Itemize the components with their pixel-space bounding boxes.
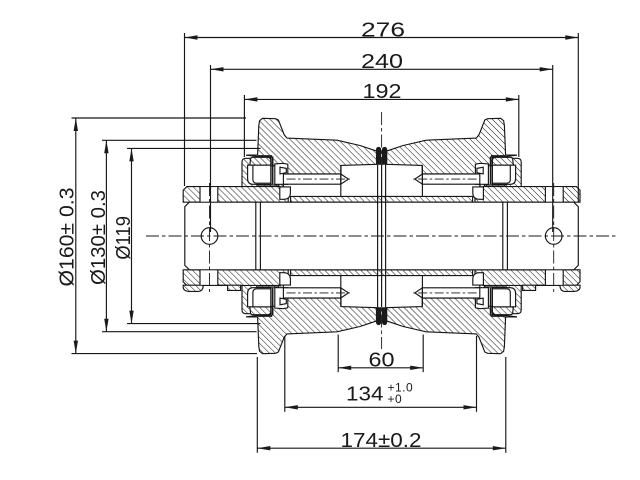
seal ring inner line: [492, 165, 510, 183]
seal ring inner line: [253, 165, 271, 183]
center rubber ring: [376, 307, 381, 325]
wedge: [280, 298, 286, 305]
floating seal block: [275, 163, 288, 184]
shaft collar steps: [255, 202, 257, 270]
roller rim section: [246, 276, 377, 354]
floating seal block: [475, 288, 488, 309]
bracket mounting foot: [183, 285, 240, 291]
svg-text:Ø160± 0.3: Ø160± 0.3: [57, 188, 79, 287]
dimension 60: [338, 335, 423, 373]
oil passage: [422, 174, 479, 184]
vertical center line: [381, 112, 383, 349]
bracket bolt hole: [200, 187, 218, 202]
gamma seal holder: [258, 288, 273, 316]
dimension 276: [185, 19, 579, 202]
seal retainer channel: [473, 187, 484, 199]
seal ring inner line: [253, 289, 271, 307]
seal retainer channel: [280, 273, 291, 285]
svg-text:276: 276: [361, 19, 405, 41]
bracket mounting foot: [523, 285, 580, 291]
bracket bolt hole: [545, 187, 563, 202]
seal ring: [492, 165, 515, 184]
seal ring: [248, 165, 271, 184]
shaft pin hole right: [545, 228, 562, 245]
shaft: [185, 202, 579, 270]
dimension 192: [244, 81, 518, 157]
right pin hole center line: [553, 183, 555, 292]
seal housing cap: [492, 307, 513, 315]
bushing upper: [291, 196, 473, 202]
bracket bolt hole: [200, 270, 218, 285]
seal ring: [492, 288, 515, 307]
roller rim section: [386, 118, 517, 196]
bearing bracket collar: [475, 187, 580, 203]
gamma seal holder: [258, 156, 273, 184]
seal housing cap: [250, 307, 271, 315]
svg-text:192: 192: [363, 81, 402, 103]
bushing lower: [291, 270, 473, 276]
gamma seal holder: [491, 156, 506, 184]
seal retainer channel: [473, 273, 484, 285]
seal boss: [242, 158, 279, 202]
oil passage: [283, 174, 340, 184]
svg-text:Ø119: Ø119: [113, 216, 135, 260]
svg-text:240: 240: [361, 51, 403, 73]
seal ring inner line: [492, 289, 510, 307]
floating seal block: [275, 288, 288, 309]
roller rim section: [386, 276, 517, 354]
svg-text:134: 134: [346, 384, 384, 406]
wedge: [280, 167, 286, 174]
seal retainer channel: [280, 187, 291, 199]
wedge: [477, 167, 483, 174]
dimension dia 160: [57, 118, 257, 354]
oil passage: [422, 288, 479, 298]
bearing bracket collar: [183, 270, 288, 286]
dimension 174: [257, 357, 506, 453]
bearing bracket collar: [475, 270, 580, 286]
seal housing cap: [492, 157, 513, 165]
seal ring: [248, 288, 271, 307]
horizontal axis center line: [146, 235, 618, 237]
shaft pin hole left: [201, 228, 218, 245]
bearing bracket collar: [183, 187, 288, 203]
seal housing cap: [250, 157, 271, 165]
svg-text:Ø130± 0.3: Ø130± 0.3: [88, 190, 110, 285]
center split lines: [377, 165, 379, 308]
seal boss: [242, 270, 279, 314]
dimension dia 119: [113, 148, 261, 323]
svg-text:60: 60: [369, 350, 395, 372]
dimension 134: [285, 336, 477, 412]
oil passage: [283, 288, 340, 298]
center rubber ring: [376, 147, 381, 165]
dimension dia 130: [88, 140, 257, 331]
dimension 240: [211, 51, 553, 232]
seal boss: [484, 270, 521, 314]
bracket bolt hole: [545, 270, 563, 285]
wedge: [477, 298, 483, 305]
svg-text:174±0.2: 174±0.2: [341, 430, 422, 452]
seal boss: [484, 158, 521, 202]
floating seal block: [475, 163, 488, 184]
left pin hole center line: [209, 183, 211, 292]
gamma seal holder: [491, 288, 506, 316]
roller rim section: [246, 118, 377, 196]
svg-text:+0: +0: [388, 392, 403, 406]
